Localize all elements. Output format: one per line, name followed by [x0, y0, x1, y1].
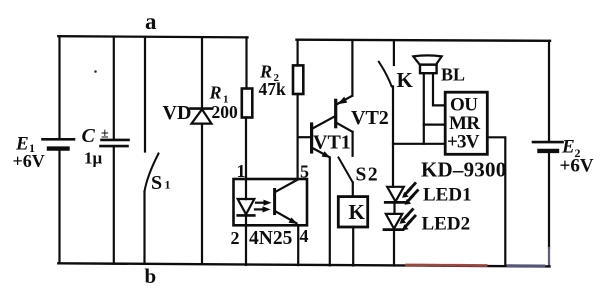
svg-text:1: 1 — [165, 178, 171, 192]
wire capacitor branch lower — [113, 147, 115, 263]
wire +3V right down — [487, 137, 505, 266]
wire MR pin — [424, 123, 445, 125]
switch contact K — [379, 62, 392, 87]
svg-text:47k: 47k — [259, 79, 287, 99]
wire S1 branch lower — [143, 192, 145, 264]
svg-text:+6V: +6V — [560, 156, 594, 177]
wire K contact riser — [393, 41, 395, 66]
wire speaker right terminal to OU — [433, 73, 445, 105]
wire VT2 collector down — [352, 132, 354, 156]
opto internal LED — [238, 199, 255, 215]
battery E1 — [43, 139, 75, 148]
svg-text:S: S — [151, 172, 162, 194]
svg-text:1μ: 1μ — [84, 149, 103, 168]
wire S2 to relay K — [352, 183, 354, 197]
svg-text:R: R — [209, 83, 222, 103]
wire LED2 down — [393, 230, 395, 266]
wire top-left rail a — [58, 36, 247, 37]
wire left border lower — [58, 151, 60, 264]
wire S1 branch upper — [144, 37, 146, 152]
battery E2 — [533, 142, 563, 151]
svg-text:5: 5 — [300, 162, 309, 182]
svg-text:±: ± — [101, 127, 109, 142]
wire E2 lower — [548, 153, 550, 249]
optocoupler U1 4N25 box — [234, 179, 308, 225]
transistor VT1 — [298, 116, 336, 158]
svg-text:BL: BL — [441, 65, 465, 85]
wire VT2 emitter riser — [351, 41, 353, 96]
wire speaker left terminal — [423, 73, 425, 144]
wire VT1 emitter down — [329, 158, 331, 266]
capacitor C1 — [101, 140, 129, 146]
label E1 +6V — [13, 134, 45, 172]
svg-text:+6V: +6V — [13, 151, 45, 171]
svg-text:VT1: VT1 — [313, 132, 351, 154]
opto pin labels — [231, 161, 310, 248]
wire VD branch upper — [201, 37, 203, 109]
resistor R2 — [293, 65, 303, 94]
resistor R1 — [242, 89, 253, 118]
label C 1u and polarity — [82, 125, 110, 168]
wire LED1 to LED2 — [393, 202, 395, 214]
wire capacitor branch upper — [113, 37, 115, 139]
svg-text:KD–9300: KD–9300 — [421, 158, 506, 182]
relay coil K — [338, 197, 367, 227]
IC U2 KD-9300 box — [445, 92, 487, 154]
wire K contact down to LED1 — [392, 86, 394, 187]
wire +3V left run — [393, 143, 445, 145]
label R1 200 — [209, 83, 239, 123]
wire top-right rail — [297, 40, 551, 41]
wire R1 riser — [245, 37, 247, 88]
label E2 +6V — [560, 137, 594, 177]
wire opto pin2 down — [245, 215, 247, 265]
LED1 flash arrows — [402, 184, 418, 205]
wire E2 riser — [548, 41, 550, 141]
bottom rail red artifact — [407, 264, 487, 267]
switch S1 — [145, 154, 159, 192]
LED1 — [385, 187, 404, 203]
svg-text:200: 200 — [212, 102, 239, 122]
svg-text:VD: VD — [163, 102, 192, 124]
wire relay K down — [352, 227, 354, 266]
opto phototransistor — [275, 180, 298, 224]
label R2 47k — [259, 62, 287, 100]
svg-text:b: b — [145, 264, 157, 288]
svg-text:4N25: 4N25 — [249, 228, 293, 249]
svg-text:+3V: +3V — [447, 132, 480, 153]
bottom rail blue artifact — [508, 264, 544, 267]
wire VD branch lower — [201, 124, 203, 264]
speaker BL — [413, 55, 441, 73]
wire E2 lower blue segment — [548, 248, 550, 266]
svg-text:1: 1 — [237, 161, 246, 181]
wire R2 riser — [297, 40, 299, 66]
zener diode VD — [191, 109, 213, 124]
svg-text:S2: S2 — [356, 165, 380, 186]
svg-text:K: K — [397, 68, 414, 92]
stray dot artifact — [94, 70, 97, 73]
switch S2 — [339, 158, 353, 183]
LED2 flash arrows — [400, 210, 416, 231]
svg-text:2: 2 — [231, 228, 240, 248]
svg-text:LED1: LED1 — [423, 185, 472, 206]
LED2 — [384, 214, 403, 230]
svg-text:4: 4 — [300, 226, 309, 246]
wire R1 to opto pin1 — [245, 118, 247, 200]
wire left border upper — [58, 36, 60, 138]
svg-text:a: a — [145, 9, 157, 34]
svg-text:VT2: VT2 — [351, 107, 389, 129]
wire R2 down to opto pin5 — [297, 94, 299, 179]
wire bottom rail b — [58, 263, 549, 266]
IC pin texts — [447, 95, 480, 153]
label S1 — [151, 172, 171, 194]
svg-text:E: E — [561, 137, 575, 158]
opto light arrows — [255, 200, 272, 213]
wire opto pin4 down — [297, 225, 299, 265]
transistor VT2 — [336, 96, 353, 132]
svg-text:LED2: LED2 — [422, 214, 471, 235]
svg-text:C: C — [82, 125, 96, 147]
svg-text:K: K — [349, 200, 366, 224]
